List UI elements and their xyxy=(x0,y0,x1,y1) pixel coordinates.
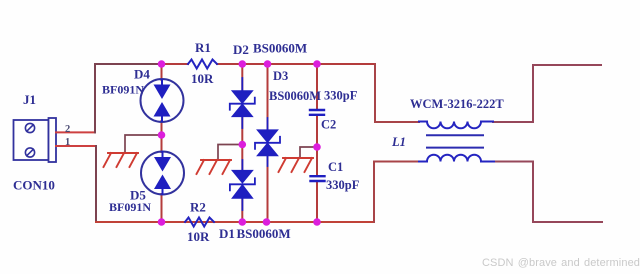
connector J1 body xyxy=(14,118,57,162)
svg-text:D1: D1 xyxy=(219,226,235,241)
junction node: top rail at C2 xyxy=(313,60,321,68)
wire: D3 branch lower xyxy=(267,156,269,222)
wire: pin 1 stub xyxy=(56,145,96,147)
svg-text:BF091N: BF091N xyxy=(102,83,144,97)
wire: bottom rail xyxy=(96,221,374,223)
junction node: D2/D1 midpoint xyxy=(239,141,247,149)
resistor R2 xyxy=(185,218,214,227)
wire: C2 to C1 link xyxy=(316,116,318,175)
resistor R1 xyxy=(188,60,217,69)
TVS diode D2 xyxy=(230,78,255,128)
svg-text:10R: 10R xyxy=(191,71,214,86)
svg-text:WCM-3216-222T: WCM-3216-222T xyxy=(410,97,504,111)
ground symbol (chassis) at C2/C1 node xyxy=(279,158,314,172)
junction node: top rail at D4 xyxy=(158,60,166,68)
wire: top right corner down xyxy=(375,64,419,122)
svg-text:BS0060M: BS0060M xyxy=(269,89,321,103)
surge arrester D5 xyxy=(141,152,184,195)
ground stub wire at C2/C1 node xyxy=(300,147,317,157)
choke core lines xyxy=(427,135,483,147)
junction node: bottom rail at C1 xyxy=(313,218,321,226)
svg-text:330pF: 330pF xyxy=(326,178,360,192)
wire: left vertical up from pin 2 xyxy=(94,64,96,132)
wire: C2 branch upper xyxy=(316,64,318,109)
wire: D5 bottom lead xyxy=(161,194,163,222)
wire: D2 branch from top rail xyxy=(241,64,243,92)
junction node: bottom rail at D5 xyxy=(158,218,166,226)
junction node: top rail at D2 xyxy=(239,60,247,68)
svg-text:CON10: CON10 xyxy=(13,178,55,193)
capacitor C1 xyxy=(311,176,325,181)
svg-text:330pF: 330pF xyxy=(324,89,358,103)
TVS diode D1 xyxy=(230,160,255,210)
svg-text:C2: C2 xyxy=(321,118,336,132)
wire: D4 branch top lead xyxy=(161,64,163,80)
junction node: top rail at D3 xyxy=(264,60,272,68)
svg-text:D2: D2 xyxy=(233,42,249,57)
wire: bottom right corner up to choke xyxy=(374,162,419,223)
ground stub wire at D2/D1 node xyxy=(218,145,242,160)
J1 screw terminal pin 1 xyxy=(25,148,34,157)
junction node: bottom rail at D3 xyxy=(263,218,271,226)
svg-text:BS0060M: BS0060M xyxy=(253,41,307,56)
svg-text:1: 1 xyxy=(65,137,70,148)
svg-text:D3: D3 xyxy=(273,69,288,83)
wire: D3 branch upper xyxy=(267,64,269,131)
wire: top rail left segment xyxy=(95,63,162,65)
wire: D1 to bottom rail xyxy=(241,198,243,223)
svg-text:J1: J1 xyxy=(23,92,36,107)
J1 screw terminal pin 2 xyxy=(25,123,34,132)
junction node: bottom rail at D1 xyxy=(239,218,247,226)
common mode choke L1 top winding xyxy=(419,122,493,129)
ground symbol (chassis) at D2/D1 node xyxy=(197,160,232,174)
wire: top rail to R1 xyxy=(162,63,189,65)
svg-text:D4: D4 xyxy=(134,67,150,82)
wire: choke top output xyxy=(493,65,601,122)
svg-text:R1: R1 xyxy=(195,40,211,55)
svg-text:L1: L1 xyxy=(391,135,406,149)
svg-text:2: 2 xyxy=(65,124,70,135)
svg-text:BF091N: BF091N xyxy=(109,200,151,214)
wire: C1 to bottom rail xyxy=(316,182,318,223)
wire: D4-D5 middle link xyxy=(161,121,163,152)
svg-text:BS0060M: BS0060M xyxy=(237,226,291,241)
ground symbol (chassis) at D4/D5 node xyxy=(104,153,139,167)
wire: top rail R1 to D2 xyxy=(217,63,242,65)
svg-text:CSDN @brave and determined: CSDN @brave and determined xyxy=(482,257,640,269)
ground stub wire at D4/D5 node xyxy=(125,135,162,152)
junction node: D4/D5 midpoint xyxy=(158,131,166,139)
wire: choke bottom output xyxy=(494,162,602,223)
svg-text:10R: 10R xyxy=(187,229,210,244)
common mode choke L1 bottom winding xyxy=(419,155,494,162)
wire: left vertical down from pin 1 xyxy=(95,146,97,222)
wire: top rail D2 to corner xyxy=(242,63,375,65)
svg-text:R2: R2 xyxy=(190,200,206,215)
surge arrester D4 xyxy=(141,79,184,122)
wire: D2 to ground junction xyxy=(241,116,243,172)
wire: pin 2 stub xyxy=(56,131,95,133)
TVS diode D3 xyxy=(255,118,280,166)
capacitor C2 xyxy=(310,110,324,115)
svg-text:C1: C1 xyxy=(328,160,343,174)
junction node: C2/C1 midpoint xyxy=(313,143,321,151)
